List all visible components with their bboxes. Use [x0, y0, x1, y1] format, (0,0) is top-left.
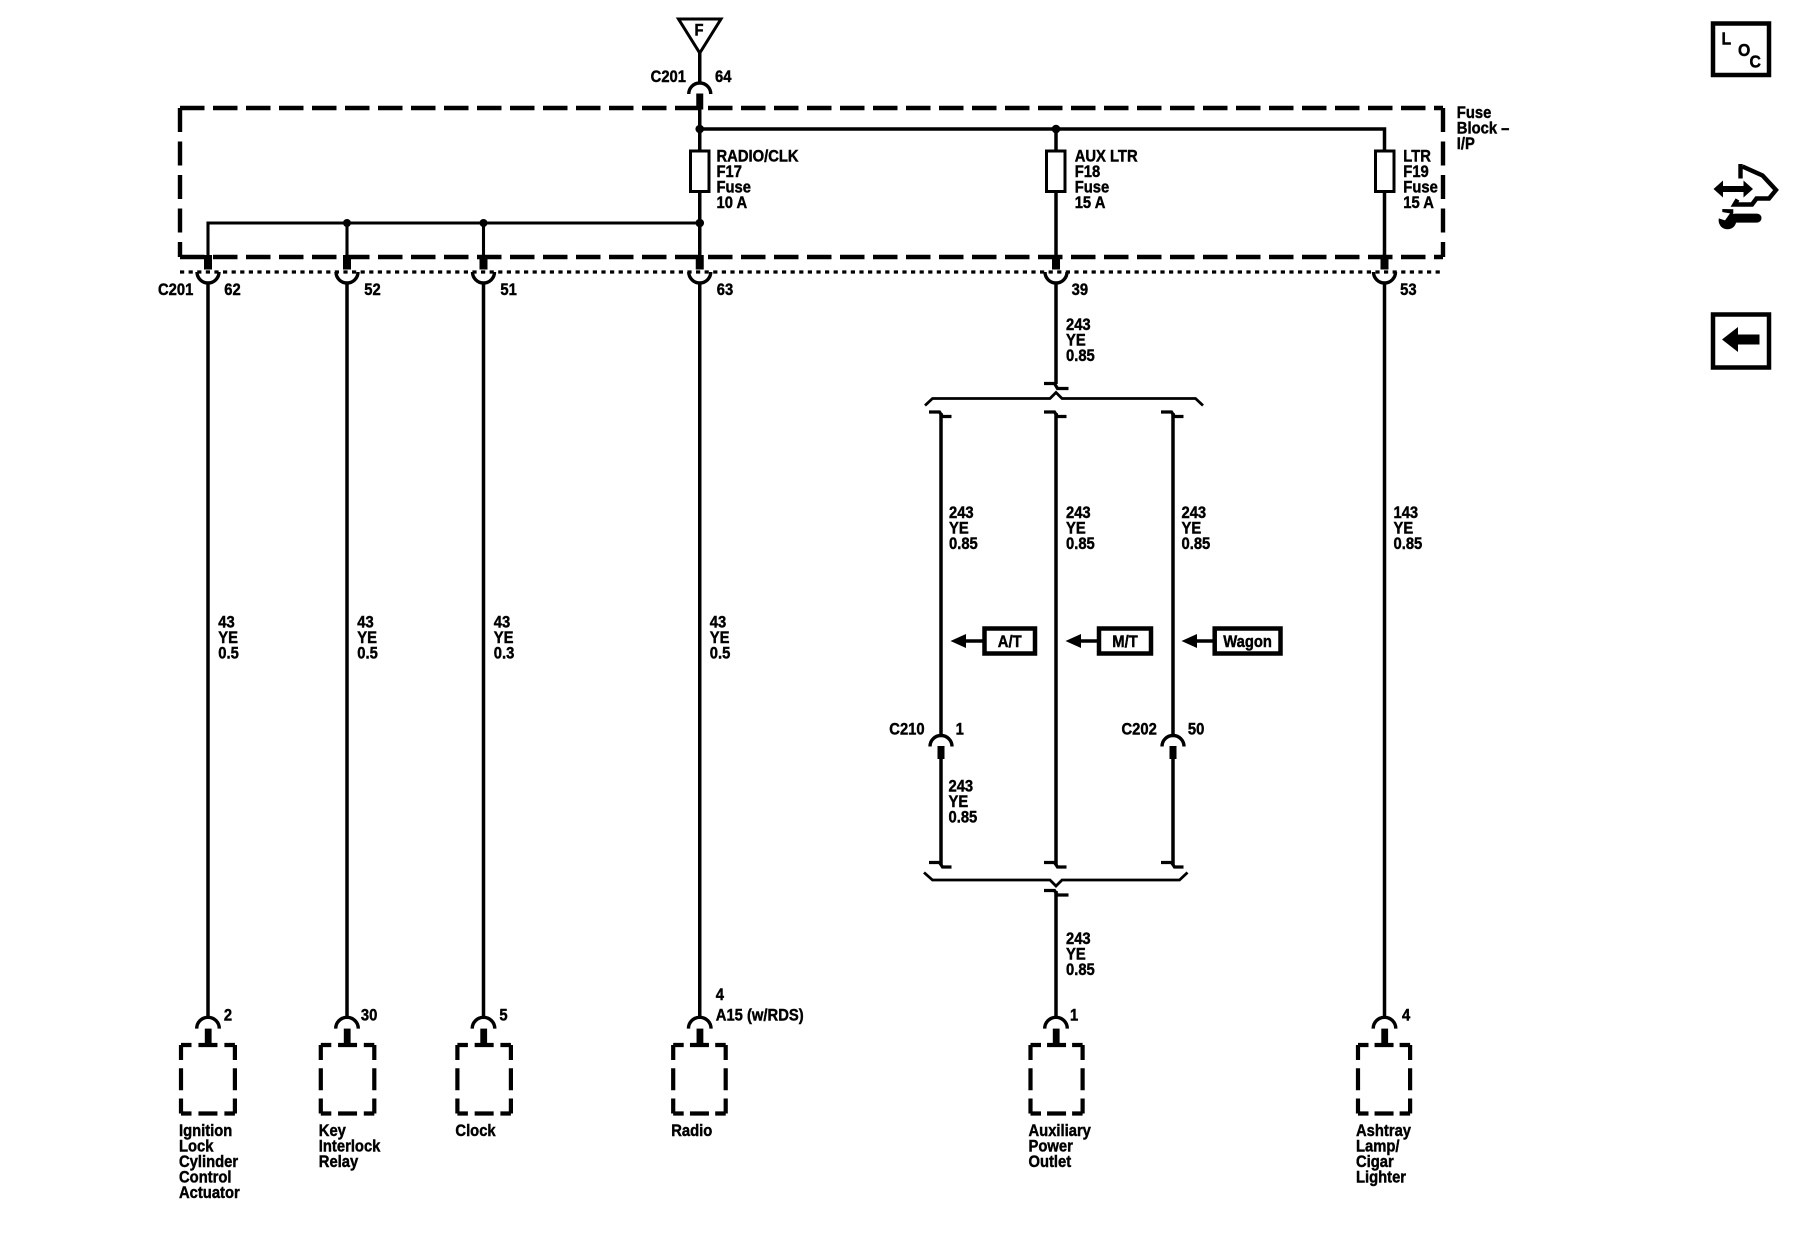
svg-text:63: 63	[717, 281, 734, 299]
svg-text:39: 39	[1072, 281, 1089, 299]
svg-text:C202: C202	[1121, 721, 1157, 739]
svg-text:Lighter: Lighter	[1356, 1169, 1406, 1187]
svg-text:M/T: M/T	[1112, 633, 1138, 651]
svg-text:A15 (w/RDS): A15 (w/RDS)	[716, 1006, 804, 1024]
svg-text:64: 64	[715, 68, 732, 86]
svg-text:50: 50	[1188, 721, 1205, 739]
svg-text:C201: C201	[651, 68, 687, 86]
svg-text:0.5: 0.5	[218, 645, 239, 663]
svg-text:0.5: 0.5	[357, 645, 378, 663]
svg-text:0.85: 0.85	[1394, 535, 1423, 553]
svg-text:52: 52	[364, 281, 381, 299]
svg-text:10 A: 10 A	[717, 194, 748, 212]
svg-text:L: L	[1722, 29, 1732, 49]
svg-text:F: F	[694, 22, 703, 40]
svg-text:51: 51	[500, 281, 517, 299]
svg-text:0.3: 0.3	[494, 645, 515, 663]
svg-text:0.85: 0.85	[949, 535, 978, 553]
svg-text:15 A: 15 A	[1075, 194, 1106, 212]
svg-text:A/T: A/T	[998, 633, 1022, 651]
svg-text:Relay: Relay	[319, 1153, 359, 1171]
svg-text:30: 30	[361, 1006, 378, 1024]
svg-text:15 A: 15 A	[1403, 194, 1434, 212]
svg-text:53: 53	[1400, 281, 1417, 299]
svg-text:Clock: Clock	[455, 1122, 495, 1140]
svg-text:C210: C210	[889, 721, 925, 739]
svg-text:1: 1	[1070, 1006, 1078, 1024]
svg-text:O: O	[1738, 40, 1750, 60]
svg-text:0.85: 0.85	[1066, 347, 1095, 365]
svg-text:62: 62	[224, 281, 241, 299]
svg-text:I/P: I/P	[1457, 135, 1475, 153]
svg-text:Wagon: Wagon	[1223, 633, 1272, 651]
svg-text:1: 1	[956, 721, 964, 739]
svg-text:0.85: 0.85	[1066, 535, 1095, 553]
svg-text:C201: C201	[158, 281, 194, 299]
svg-text:4: 4	[716, 986, 724, 1004]
svg-text:Outlet: Outlet	[1029, 1153, 1072, 1171]
svg-text:Radio: Radio	[671, 1122, 712, 1140]
svg-text:C: C	[1750, 52, 1761, 72]
svg-text:4: 4	[1402, 1006, 1410, 1024]
svg-text:Actuator: Actuator	[179, 1184, 240, 1202]
svg-text:0.5: 0.5	[710, 645, 731, 663]
svg-text:0.85: 0.85	[949, 809, 978, 827]
svg-text:0.85: 0.85	[1066, 961, 1095, 979]
svg-text:5: 5	[499, 1006, 507, 1024]
svg-text:2: 2	[224, 1006, 232, 1024]
svg-text:0.85: 0.85	[1182, 535, 1211, 553]
